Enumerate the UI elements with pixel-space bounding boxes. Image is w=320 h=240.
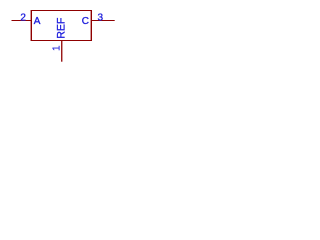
svg-text:C: C — [82, 16, 89, 27]
svg-text:3: 3 — [98, 12, 104, 23]
symbol body: left edge — [30, 10, 32, 41]
wire: right pin (pin 3, C) — [92, 20, 115, 22]
wire: left pin (pin 2, A) — [12, 20, 31, 22]
symbol body: right edge — [90, 10, 92, 41]
svg-text:A: A — [34, 16, 41, 27]
svg-text:1: 1 — [52, 45, 63, 51]
svg-text:2: 2 — [20, 12, 26, 23]
symbol body: bottom edge — [31, 40, 92, 42]
svg-text:REF: REF — [55, 17, 67, 39]
wire: bottom pin (pin 1, REF) — [61, 41, 63, 62]
symbol body: top edge — [31, 10, 92, 12]
voltage reference U1 (REF box symbol, pins A/C/REF) — [0, 0, 125, 72]
